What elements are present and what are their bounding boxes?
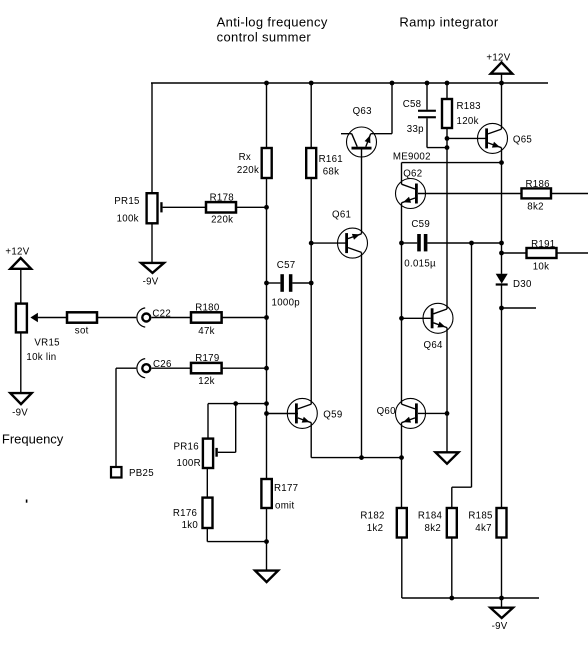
wire node to Q59 base xyxy=(267,413,299,415)
junction Q65 base xyxy=(445,136,450,141)
junction node top rail xyxy=(264,81,269,86)
wire +12V to VR15 top xyxy=(20,269,22,304)
label 10k lin xyxy=(26,352,56,363)
label R176 xyxy=(173,508,197,519)
stray period mark xyxy=(26,500,28,503)
label Q61 xyxy=(332,209,351,220)
wire Q65 base lead xyxy=(447,137,486,139)
junction Q61-C bottom xyxy=(359,455,364,460)
resistor R186 8k2 xyxy=(522,188,552,198)
svg-text:8k2: 8k2 xyxy=(527,202,544,213)
label C22 xyxy=(152,309,171,320)
wire C59 left lead xyxy=(402,242,418,244)
svg-text:220k: 220k xyxy=(237,165,259,176)
svg-text:Q60: Q60 xyxy=(377,406,397,417)
resistor R180 47k xyxy=(191,312,222,322)
power -9V arrow below PR15 xyxy=(141,263,164,273)
label 10k R191 xyxy=(533,261,550,272)
wire Q64 base lead xyxy=(402,317,431,319)
wire PR16 top lead up xyxy=(207,404,209,439)
wire -9V stub bottom right xyxy=(501,598,503,608)
svg-text:-9V: -9V xyxy=(12,408,28,419)
junction +12V rail xyxy=(499,81,504,86)
svg-text:Anti-log frequency: Anti-log frequency xyxy=(217,15,328,30)
text title control summer xyxy=(217,30,312,45)
wire Q63 collector stub xyxy=(341,133,352,135)
junction PR16 wiper xyxy=(233,401,238,406)
resistor sot xyxy=(67,312,97,322)
text title Ramp integrator xyxy=(399,15,498,30)
label R186 xyxy=(526,179,550,190)
label +12V left xyxy=(5,247,29,258)
svg-text:68k: 68k xyxy=(323,167,340,178)
power -9V arrow bottom right xyxy=(490,608,513,618)
wire C58 bottom lead xyxy=(426,118,428,147)
junction Q65E-Q62C xyxy=(499,160,504,165)
label sot xyxy=(75,325,89,336)
svg-text:R184: R184 xyxy=(418,511,443,522)
junction C58 ramp node xyxy=(445,145,450,150)
svg-text:R186: R186 xyxy=(526,179,550,190)
label 0.015u xyxy=(404,258,436,269)
resistor R184 8k2 xyxy=(447,508,457,538)
ground below Q64 xyxy=(436,452,459,463)
label ME9002 xyxy=(393,151,431,162)
svg-text:omit: omit xyxy=(275,501,295,512)
svg-text:C22: C22 xyxy=(152,309,171,320)
label Rx xyxy=(239,152,251,163)
svg-text:Q65: Q65 xyxy=(513,135,532,146)
label 100R xyxy=(177,458,201,469)
wire Q60 base xyxy=(418,412,447,414)
label +12V top right xyxy=(486,52,510,63)
svg-text:Q63: Q63 xyxy=(353,106,372,117)
connector C26 xyxy=(137,359,150,378)
label 100k xyxy=(117,214,139,225)
label 220k Rx xyxy=(237,165,259,176)
svg-text:PR15: PR15 xyxy=(114,196,139,207)
label VR15 xyxy=(34,338,59,349)
label -9V bottom right xyxy=(492,621,508,632)
label 4k7 xyxy=(475,523,492,534)
junction R185 rail xyxy=(499,596,504,601)
resistor R185 4k7 xyxy=(497,508,507,538)
svg-text:4k7: 4k7 xyxy=(475,523,492,534)
svg-text:C26: C26 xyxy=(153,359,172,370)
wire left drop to PR15 xyxy=(151,83,153,193)
svg-text:10k: 10k xyxy=(533,261,550,272)
junction R178 node xyxy=(264,205,269,210)
svg-text:C57: C57 xyxy=(277,260,296,271)
junction Q63 rail xyxy=(390,81,395,86)
junction C59 right xyxy=(469,241,474,246)
svg-text:33p: 33p xyxy=(407,124,424,135)
junction R184 rail xyxy=(449,596,454,601)
junction PR16 node xyxy=(264,401,269,406)
junction D30 stub xyxy=(499,306,504,311)
svg-text:R185: R185 xyxy=(468,511,492,522)
svg-text:R176: R176 xyxy=(173,508,197,519)
label Q59 xyxy=(323,410,342,421)
label D30 xyxy=(513,279,532,290)
label 8k2 R186 xyxy=(527,202,544,213)
wire Q61 emitter up to Q63 base xyxy=(361,149,363,233)
label Q60 xyxy=(377,406,397,417)
wire left integrator column to Q60 collector xyxy=(401,243,403,404)
potentiometer VR15 10k lin xyxy=(16,304,38,333)
junction C57 right xyxy=(309,281,314,286)
resistor R176 1k0 xyxy=(203,498,213,528)
svg-text:Q64: Q64 xyxy=(424,340,444,351)
wire Q65 emitter down xyxy=(501,148,503,163)
capacitor C58 33p xyxy=(418,110,436,119)
wire +12V top rail xyxy=(151,82,548,84)
resistor R178 220k xyxy=(206,202,236,212)
wire ramp node vertical R183 to Q64 collector xyxy=(446,83,448,309)
label C58 xyxy=(403,99,422,110)
wire C57 left lead xyxy=(267,282,281,284)
label PR15 xyxy=(114,196,139,207)
wire PB25 corner to C26 xyxy=(116,367,136,369)
wire PR16 to R176 xyxy=(206,468,208,498)
junction C58 rail xyxy=(425,81,430,86)
transistor Q63 xyxy=(347,127,377,157)
capacitor C59 0.015u xyxy=(417,234,427,251)
svg-text:100k: 100k xyxy=(117,214,139,225)
wire C59 right lead to right rail xyxy=(427,242,501,244)
wire R182 bottom to -9V rail xyxy=(401,538,403,599)
svg-text:1000p: 1000p xyxy=(272,298,300,309)
svg-text:-9V: -9V xyxy=(492,621,508,632)
label R177 xyxy=(274,483,298,494)
svg-text:R191: R191 xyxy=(531,239,555,250)
power +12V arrow top right xyxy=(491,62,513,73)
wire link down to Q62 collector xyxy=(401,163,403,185)
label R185 xyxy=(468,511,492,522)
svg-text:0.015µ: 0.015µ xyxy=(404,258,436,269)
svg-text:+12V: +12V xyxy=(486,52,510,63)
resistor Rx 220k xyxy=(262,148,272,178)
text title Anti-log frequency xyxy=(217,15,328,30)
wire PR16 wiper horizontal xyxy=(218,451,236,453)
svg-text:+12V: +12V xyxy=(5,247,29,258)
wire main summing node vertical (through Rx and R177) xyxy=(266,83,268,571)
text Frequency xyxy=(2,432,64,447)
wire Q63 riser to +12V rail xyxy=(391,83,393,134)
svg-text:-9V: -9V xyxy=(143,277,159,288)
transistor Q62 xyxy=(396,179,426,209)
label R161 xyxy=(319,154,343,165)
label omit xyxy=(275,501,295,512)
label C59 xyxy=(411,219,430,230)
label Q65 xyxy=(513,135,532,146)
svg-text:sot: sot xyxy=(75,325,89,336)
preset PR16 100R xyxy=(203,439,218,468)
wire R184 jog xyxy=(452,486,472,488)
wire R184 top lead xyxy=(451,487,453,508)
wire Q61 base xyxy=(311,242,348,244)
wire PR15 wiper to R178 to node xyxy=(163,206,267,208)
label R191 xyxy=(531,239,555,250)
wire C59 node down to R184 xyxy=(471,243,473,487)
wire C22 through R180 to node xyxy=(152,317,267,319)
label -9V below VR15 xyxy=(12,408,28,419)
svg-text:47k: 47k xyxy=(198,326,215,337)
wire R184 bottom xyxy=(451,538,453,599)
junction R183 rail xyxy=(445,81,450,86)
junction C57 left xyxy=(264,281,269,286)
svg-text:R179: R179 xyxy=(195,353,219,364)
svg-text:1k0: 1k0 xyxy=(182,520,199,531)
resistor R161 68k xyxy=(306,148,316,178)
junction R176-R177 xyxy=(264,539,269,544)
wire PR16 wiper up to node xyxy=(235,404,237,453)
junction Q61 base xyxy=(309,241,314,246)
svg-text:10k lin: 10k lin xyxy=(26,352,56,363)
wire PR15 to -9V xyxy=(151,223,153,263)
svg-text:8k2: 8k2 xyxy=(425,523,442,534)
svg-text:D30: D30 xyxy=(513,279,532,290)
resistor R179 12k xyxy=(191,363,222,373)
resistor R191 10k xyxy=(527,248,557,258)
wire Q62 emitter down to C59 node xyxy=(401,203,403,243)
label R178 xyxy=(210,193,234,204)
label 120k xyxy=(457,116,479,127)
transistor Q60 xyxy=(396,398,426,428)
label Q62 xyxy=(403,168,422,179)
svg-text:control summer: control summer xyxy=(217,30,312,45)
junction C59-rail xyxy=(499,241,504,246)
label 33p xyxy=(407,124,424,135)
svg-text:R177: R177 xyxy=(274,483,298,494)
transistor Q61 xyxy=(338,228,368,258)
svg-text:12k: 12k xyxy=(198,376,215,387)
label Q63 xyxy=(353,106,372,117)
svg-text:Rx: Rx xyxy=(239,152,251,163)
resistor R182 1k2 xyxy=(397,508,407,538)
wire right rail D30 to -9V rail xyxy=(501,286,503,599)
svg-text:R180: R180 xyxy=(195,303,220,314)
transistor Q59 xyxy=(287,398,317,428)
wire R176 to R177 junction xyxy=(207,541,266,543)
svg-text:R161: R161 xyxy=(319,154,343,165)
label R179 xyxy=(195,353,219,364)
resistor R177 omit xyxy=(261,479,271,508)
wire Q61 collector down to bottom junction xyxy=(361,252,363,457)
wire R161 column down to Q59 collector xyxy=(310,83,312,404)
wire +12V stub top right xyxy=(501,74,503,83)
label C26 xyxy=(153,359,172,370)
transistor Q64 xyxy=(423,303,453,333)
label 220k R178 xyxy=(211,214,233,225)
svg-text:VR15: VR15 xyxy=(34,338,59,349)
wire Q59 emitter to bottom junction xyxy=(311,457,401,459)
svg-text:R183: R183 xyxy=(457,101,481,112)
wire PB25 up xyxy=(115,368,117,467)
svg-text:Q62: Q62 xyxy=(403,168,422,179)
label R180 xyxy=(195,303,220,314)
junction R161 rail xyxy=(309,81,314,86)
resistor R183 120k xyxy=(442,99,452,128)
svg-text:Q61: Q61 xyxy=(332,209,351,220)
junction R180 node xyxy=(264,315,269,320)
svg-text:C59: C59 xyxy=(411,219,430,230)
preset PR15 100k xyxy=(147,193,163,223)
junction R179 node xyxy=(264,366,269,371)
power +12V arrow left xyxy=(10,258,31,269)
label R184 xyxy=(418,511,443,522)
svg-text:R182: R182 xyxy=(360,511,384,522)
capacitor C57 1000p xyxy=(280,274,292,292)
label 68k xyxy=(323,167,340,178)
junction Q64 base xyxy=(399,316,404,321)
svg-text:R178: R178 xyxy=(210,193,234,204)
connector C22 xyxy=(137,308,150,327)
svg-text:Q59: Q59 xyxy=(323,410,342,421)
wire C26 through R179 to node xyxy=(152,367,267,369)
svg-text:Frequency: Frequency xyxy=(2,432,64,447)
junction C59 left xyxy=(399,241,404,246)
junction R191 xyxy=(499,251,504,256)
svg-text:120k: 120k xyxy=(457,116,479,127)
wire Q65 collector to rail xyxy=(501,83,503,129)
wire Q62 collector link to Q65 emitter xyxy=(402,162,502,164)
wire C58 top lead xyxy=(426,83,428,110)
wire VR15 wiper row through sot to C22 xyxy=(38,317,137,319)
label PB25 xyxy=(129,468,154,479)
power -9V arrow below VR15 xyxy=(10,393,31,404)
wire VR15 bottom to -9V xyxy=(20,332,22,393)
label R182 xyxy=(360,511,384,522)
svg-text:220k: 220k xyxy=(211,214,233,225)
wire right stub below D30 xyxy=(502,307,537,309)
label R183 xyxy=(457,101,481,112)
junction Q60-C bottom xyxy=(399,455,404,460)
label C57 xyxy=(277,260,296,271)
svg-text:100R: 100R xyxy=(177,458,201,469)
wire Q62 base through R186 to edge xyxy=(418,193,588,195)
label 1000p xyxy=(272,298,300,309)
svg-text:C58: C58 xyxy=(403,99,422,110)
svg-text:Ramp integrator: Ramp integrator xyxy=(399,15,498,30)
wire Q60 emitter down to R182 xyxy=(401,423,403,508)
ground below R177 xyxy=(255,571,278,582)
wire Q59 emitter down xyxy=(310,423,312,458)
wire right rail Q65E to D30 xyxy=(501,163,503,274)
svg-text:PR16: PR16 xyxy=(174,442,199,453)
wire R176 bottom xyxy=(206,528,208,542)
wire Q64 emitter to ground xyxy=(446,328,448,453)
label 47k xyxy=(198,326,215,337)
pad PB25 xyxy=(111,467,122,478)
label 12k xyxy=(198,376,215,387)
wire C58 to ramp node xyxy=(427,147,447,149)
label 1k2 xyxy=(367,523,384,534)
label PR16 xyxy=(174,442,199,453)
junction Q60 base xyxy=(445,411,450,416)
label 1k0 xyxy=(182,520,199,531)
label -9V below PR15 xyxy=(143,277,159,288)
svg-text:1k2: 1k2 xyxy=(367,523,384,534)
wire -9V bottom rail xyxy=(402,597,539,599)
transistor Q65 xyxy=(478,123,508,153)
svg-text:ME9002: ME9002 xyxy=(393,151,431,162)
diode D30 xyxy=(496,274,508,286)
label 8k2 R184 xyxy=(425,523,442,534)
wire Q63 emitter to rail riser xyxy=(371,133,392,135)
junction Q59 base node xyxy=(264,411,269,416)
wire R191 row xyxy=(502,252,588,254)
label Q64 xyxy=(424,340,444,351)
wire C57 right lead xyxy=(292,282,311,284)
wire PR16 top to node xyxy=(208,403,267,405)
svg-text:PB25: PB25 xyxy=(129,468,154,479)
